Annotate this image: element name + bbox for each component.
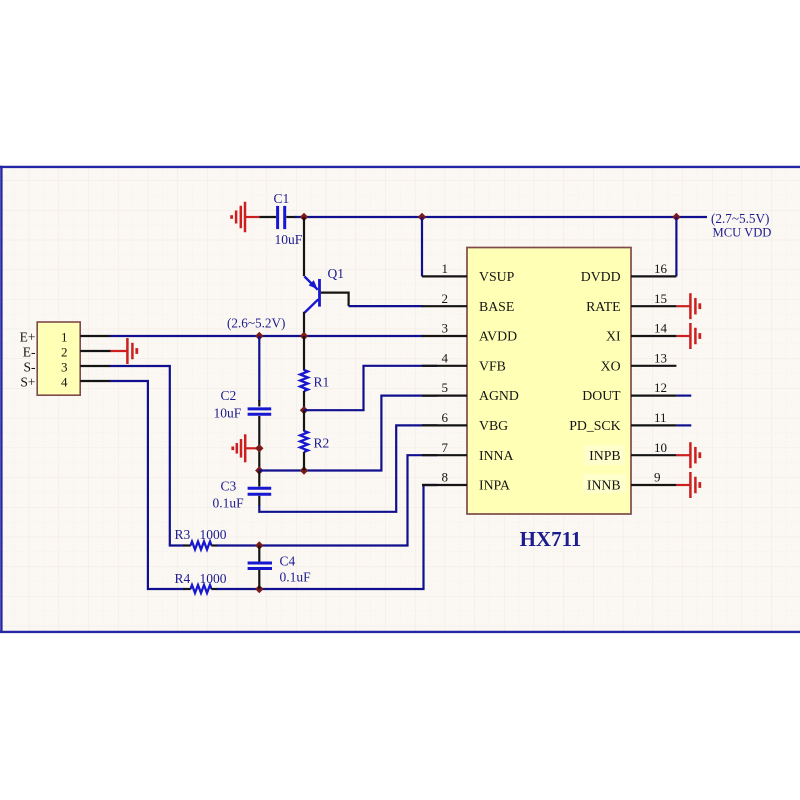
wire C3 top lead: [258, 471, 260, 487]
svg-text:0.1uF: 0.1uF: [280, 570, 312, 585]
junction R1/R2/VFB: [300, 406, 308, 414]
pin 11 PD_SCK: [569, 410, 676, 433]
svg-text:15: 15: [654, 291, 667, 306]
svg-text:10: 10: [654, 440, 667, 455]
pin 7 INNA: [422, 440, 514, 463]
svg-text:(2.7~5.5V): (2.7~5.5V): [711, 211, 769, 226]
junction AVDD/C2: [255, 332, 263, 340]
svg-text:RATE: RATE: [586, 299, 621, 314]
wire Q1 base step: [321, 293, 349, 307]
svg-text:16: 16: [654, 261, 668, 276]
junction R2/AGND: [300, 466, 308, 474]
svg-text:10uF: 10uF: [214, 405, 242, 420]
wire R2 bottom lead: [303, 452, 305, 471]
svg-text:1000: 1000: [200, 571, 227, 586]
pin 5 AGND: [422, 380, 519, 403]
wire DOUT stub: [676, 395, 691, 397]
svg-text:13: 13: [654, 350, 667, 365]
capacitor C3: [213, 478, 272, 510]
wire S+ net: [110, 381, 185, 589]
pin 4 VFB: [422, 350, 506, 373]
wire C4 bottom lead: [258, 570, 260, 589]
svg-text:S+: S+: [20, 374, 35, 389]
svg-text:Q1: Q1: [328, 266, 345, 281]
resistor R3: [175, 527, 227, 549]
svg-text:DVDD: DVDD: [581, 269, 621, 284]
pin 9 INNB: [587, 470, 677, 493]
junction C2/C3/AGND: [255, 466, 263, 474]
connector J1: [37, 322, 80, 395]
svg-text:VFB: VFB: [479, 358, 506, 373]
wire C2 bottom lead: [258, 416, 260, 471]
wire VSUP riser: [421, 217, 423, 276]
pin 2 BASE: [422, 291, 514, 314]
wire R4 to INPA pin8: [217, 485, 438, 589]
svg-text:9: 9: [654, 470, 661, 485]
svg-text:C1: C1: [274, 191, 290, 206]
svg-text:HX711: HX711: [520, 527, 582, 551]
resistor R4: [175, 571, 227, 593]
wire C3 bottom to VBG pin6: [258, 496, 260, 506]
wire C4 top lead: [258, 546, 260, 562]
junction R4/C4/INPA: [255, 585, 263, 593]
connector pins 1-4: [80, 336, 110, 381]
junction VDD/VSUP: [418, 213, 426, 221]
power net label (2.7~5.5V) MCU VDD: [711, 211, 771, 240]
power ground (C1 left): [232, 202, 260, 233]
svg-text:6: 6: [442, 410, 449, 425]
pin 16 DVDD: [581, 261, 677, 284]
wire VFB step to pin4: [304, 366, 437, 410]
svg-text:14: 14: [654, 321, 668, 336]
svg-text:7: 7: [442, 440, 449, 455]
junction VDD/DVDD: [672, 213, 680, 221]
pin 13 XO: [601, 350, 677, 373]
svg-text:4: 4: [61, 374, 68, 389]
wire PD_SCK stub: [676, 424, 691, 426]
wire R3 to INNA pin7: [217, 455, 438, 545]
svg-text:4: 4: [442, 350, 449, 365]
svg-text:1000: 1000: [200, 527, 227, 542]
svg-text:VSUP: VSUP: [479, 269, 515, 284]
svg-text:E+: E+: [20, 329, 36, 344]
connector labels E+ E- S- S+: [20, 329, 36, 389]
transistor Q1: [305, 266, 345, 313]
svg-text:DOUT: DOUT: [582, 388, 621, 403]
svg-text:AVDD: AVDD: [479, 329, 517, 344]
power ground (XI): [676, 323, 699, 349]
pin 1 VSUP: [422, 261, 515, 284]
pin 15 RATE: [586, 291, 676, 314]
power ground (INNB): [676, 472, 699, 498]
wire Q1 emitter: [303, 312, 305, 336]
wire DVDD riser: [675, 217, 677, 276]
svg-text:1: 1: [442, 261, 449, 276]
svg-text:R2: R2: [314, 436, 330, 451]
wire VDD rail: [295, 216, 707, 218]
svg-text:R1: R1: [314, 375, 330, 390]
svg-text:0.1uF: 0.1uF: [213, 496, 245, 511]
junction C2/ground: [255, 444, 263, 452]
svg-text:R4: R4: [175, 571, 191, 586]
svg-text:10uF: 10uF: [275, 232, 303, 247]
svg-text:3: 3: [442, 321, 449, 336]
power ground (INPB): [676, 442, 699, 468]
wire C2 top lead: [258, 336, 260, 401]
svg-text:(2.6~5.2V): (2.6~5.2V): [227, 316, 285, 331]
svg-text:INNB: INNB: [587, 478, 621, 493]
svg-text:INPA: INPA: [479, 478, 510, 493]
highlight patches behind INPB/INNB (artifact): [584, 445, 625, 465]
resistor R2: [300, 431, 329, 452]
svg-text:XI: XI: [606, 329, 621, 344]
pin 8 INPA: [422, 470, 510, 493]
svg-text:XO: XO: [601, 358, 621, 373]
svg-text:8: 8: [442, 470, 449, 485]
pin 12 DOUT: [582, 380, 676, 403]
svg-text:C2: C2: [221, 388, 237, 403]
svg-text:C4: C4: [280, 554, 296, 569]
svg-text:E-: E-: [23, 344, 36, 359]
junction VDD/Q1 collector: [300, 213, 308, 221]
power ground (RATE): [676, 293, 699, 319]
svg-text:MCU VDD: MCU VDD: [713, 226, 772, 240]
svg-text:C3: C3: [221, 478, 237, 493]
junction R3/C4/INNA: [255, 541, 263, 549]
svg-text:AGND: AGND: [479, 388, 519, 403]
svg-text:VBG: VBG: [479, 418, 508, 433]
capacitor C2: [214, 388, 272, 420]
svg-text:INPB: INPB: [589, 448, 620, 463]
capacitor C1: [259, 191, 302, 247]
pin 14 XI: [606, 321, 676, 344]
capacitor C4: [248, 554, 312, 585]
op-amp U1 HX711 body: [467, 248, 631, 515]
wire R2 top lead: [303, 410, 305, 431]
wire S- net: [110, 366, 185, 546]
svg-text:2: 2: [442, 291, 449, 306]
svg-text:S-: S-: [23, 359, 36, 374]
svg-text:11: 11: [654, 410, 667, 425]
svg-text:5: 5: [442, 380, 449, 395]
svg-text:3: 3: [61, 359, 68, 374]
svg-text:INNA: INNA: [479, 448, 514, 463]
wire R1 bottom lead: [303, 391, 305, 410]
wire R1 top lead: [303, 336, 305, 371]
pin 3 AVDD: [422, 321, 517, 344]
junction AVDD/Q1 emitter: [300, 332, 308, 340]
power ground (C2): [233, 434, 259, 462]
pin 6 VBG: [422, 410, 508, 433]
pin 10 INPB: [589, 440, 676, 463]
power ground (E-): [111, 338, 137, 364]
resistor R1: [300, 370, 329, 391]
wire AVDD rail (E+ to pin3): [110, 335, 423, 337]
svg-text:PD_SCK: PD_SCK: [569, 418, 620, 433]
svg-text:1: 1: [61, 329, 68, 344]
svg-text:2: 2: [61, 344, 68, 359]
svg-text:BASE: BASE: [479, 299, 514, 314]
wire Q1 collector: [303, 217, 305, 276]
wire AGND step to pin5: [259, 396, 437, 471]
svg-text:12: 12: [654, 380, 667, 395]
svg-text:R3: R3: [175, 527, 191, 542]
